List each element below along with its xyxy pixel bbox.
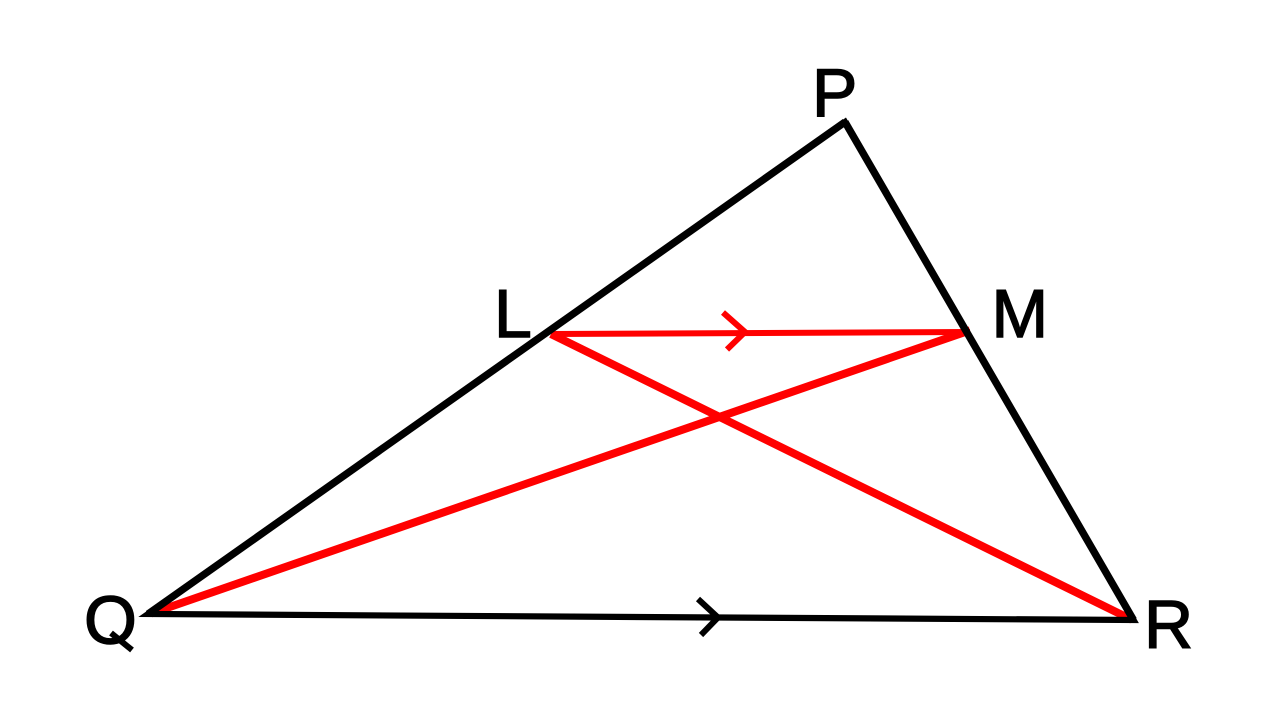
svg-text:R: R (1144, 587, 1193, 663)
svg-text:P: P (812, 55, 857, 131)
svg-text:L: L (494, 276, 532, 352)
svg-text:M: M (992, 276, 1049, 352)
